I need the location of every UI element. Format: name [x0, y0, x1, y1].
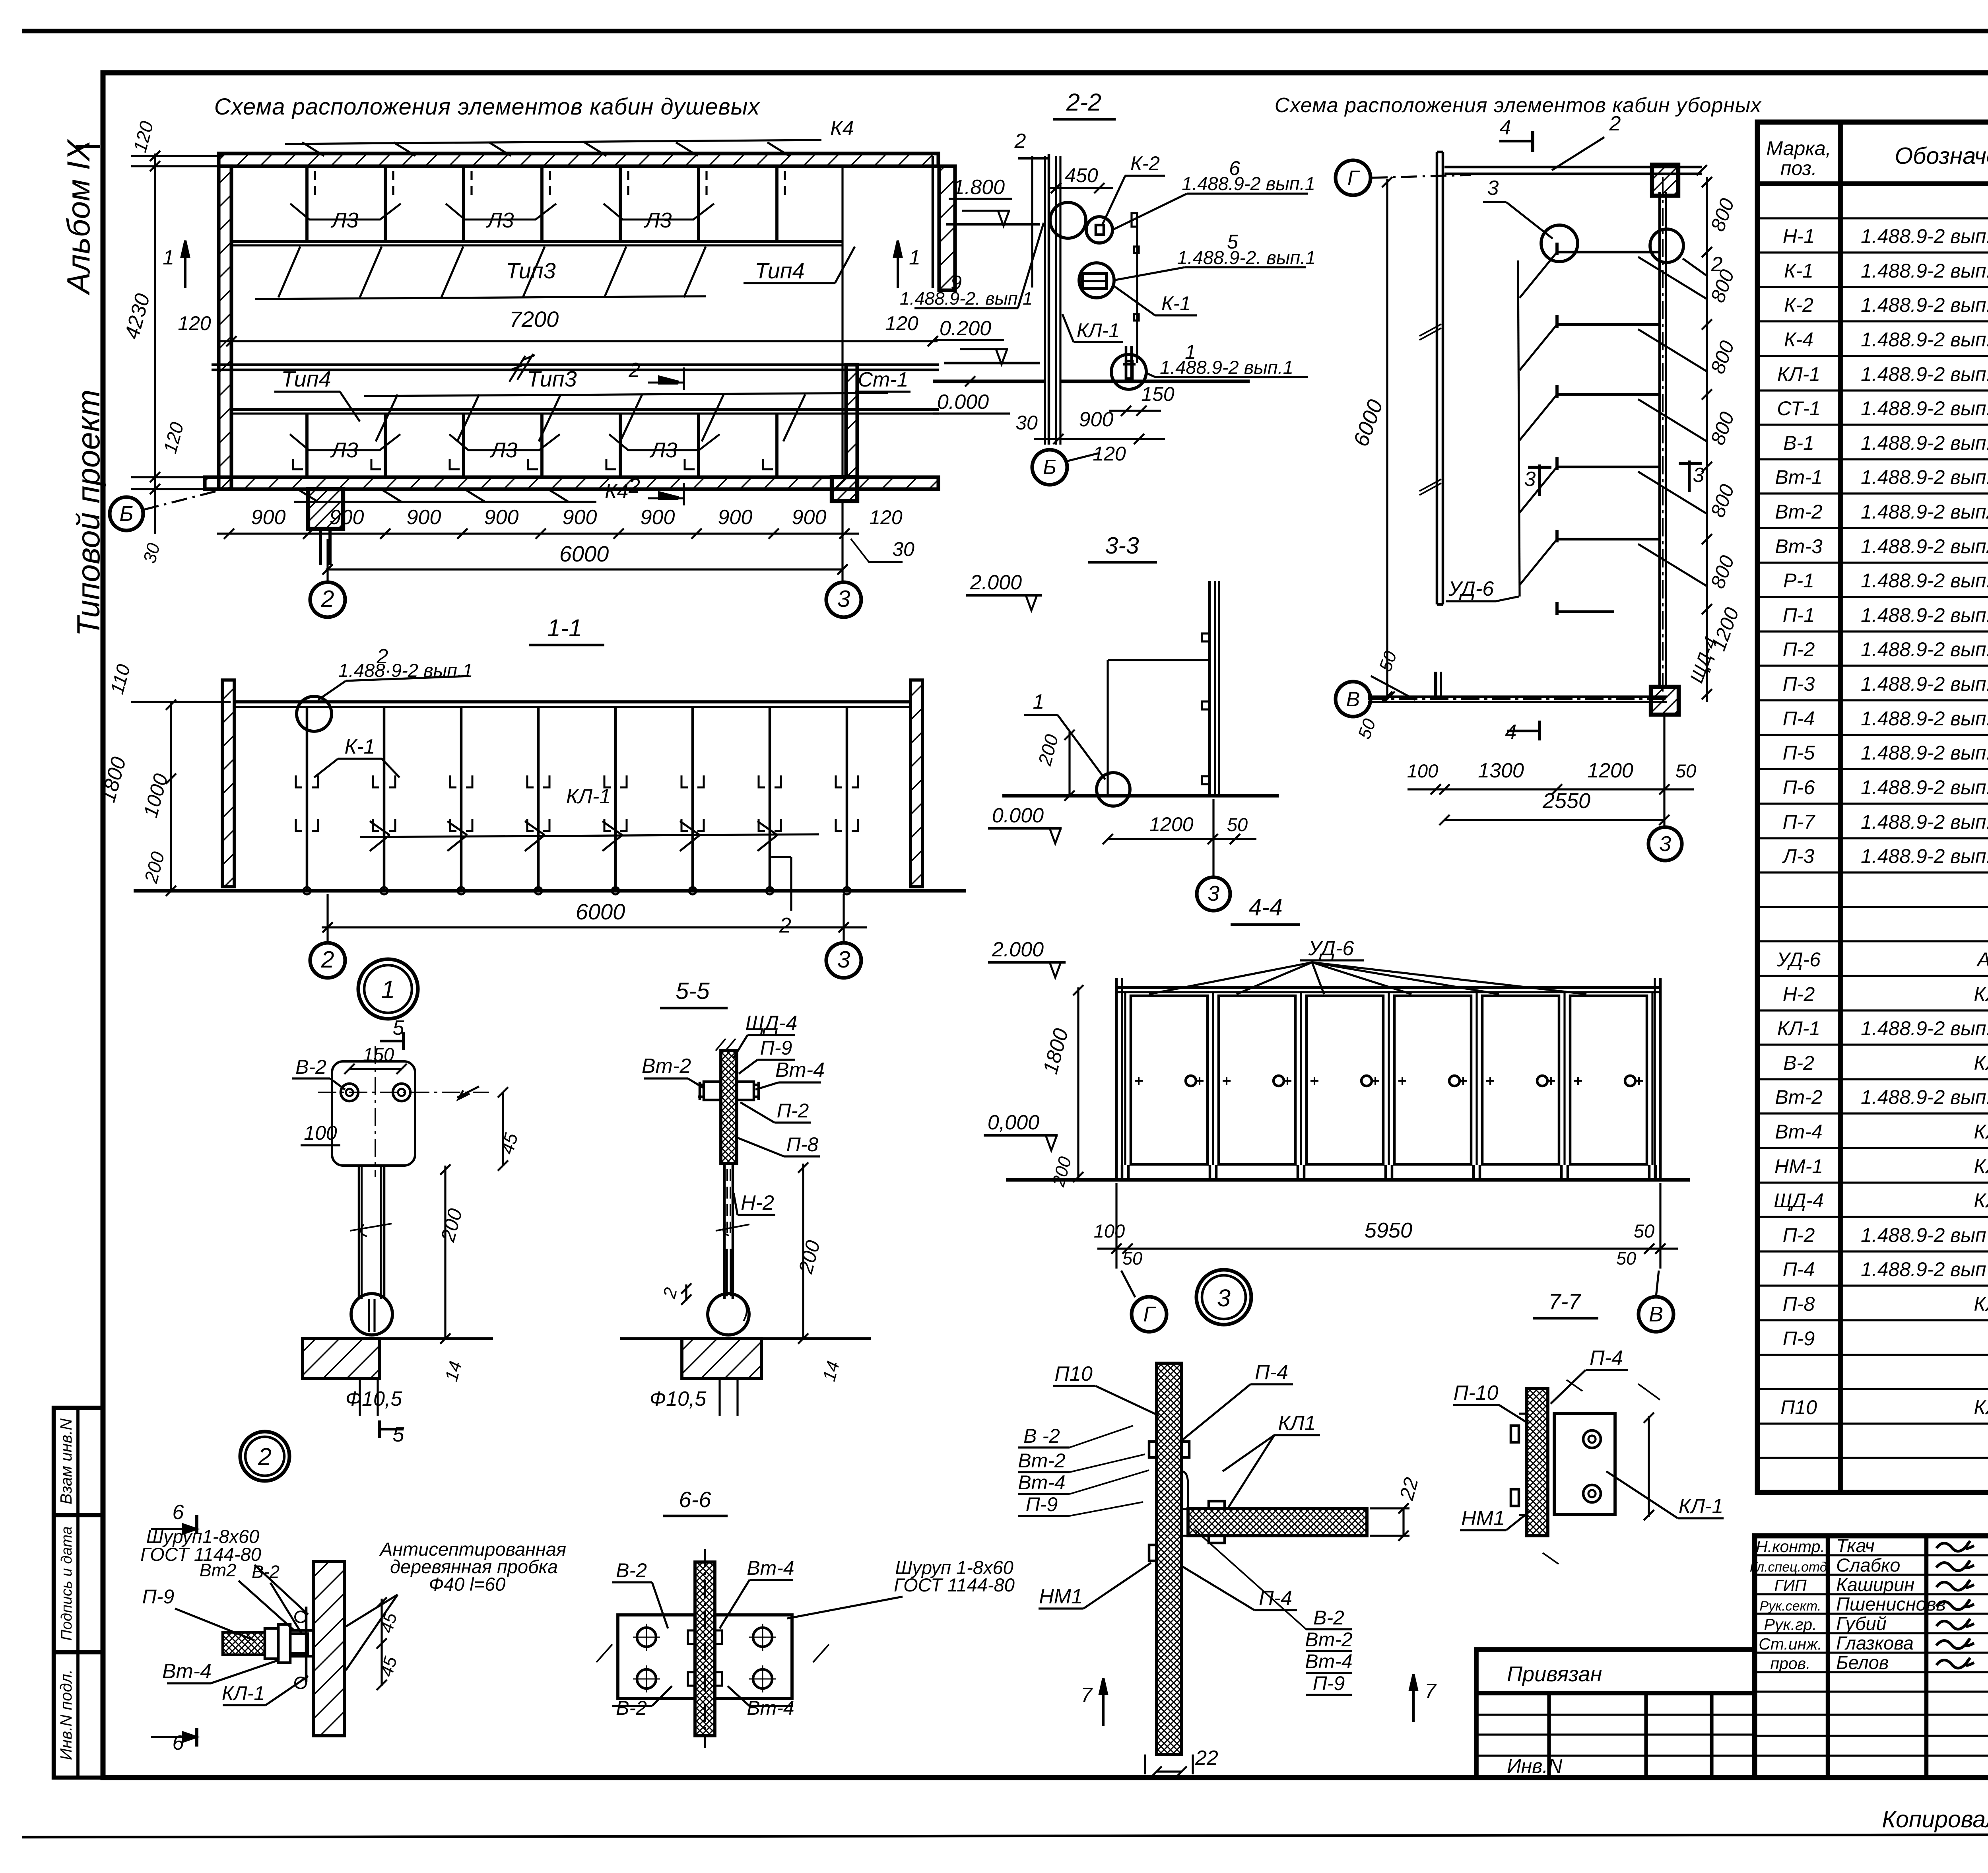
svg-text:2: 2	[321, 946, 334, 973]
svg-text:Тип3: Тип3	[527, 366, 577, 391]
4-4 right wall	[1654, 978, 1656, 1180]
svg-text:7: 7	[1425, 1680, 1437, 1703]
svg-text:ГОСТ 1144-80: ГОСТ 1144-80	[894, 1574, 1015, 1595]
svg-text:2.000: 2.000	[970, 571, 1022, 594]
second row collector and fans	[364, 393, 888, 396]
svg-text:2: 2	[258, 1443, 272, 1470]
privyazan box	[1476, 1650, 1755, 1778]
title block outline	[1755, 1536, 1988, 1778]
svg-text:ЩД-4: ЩД-4	[745, 1012, 798, 1035]
K4 leader bottom	[294, 501, 596, 503]
svg-text:Вт-3: Вт-3	[1775, 535, 1823, 558]
svg-text:1.488.9-2 вып.2: 1.488.9-2 вып.2	[1861, 294, 1988, 316]
svg-text:Г: Г	[1347, 167, 1360, 190]
svg-text:1.488.9-2 вып.2: 1.488.9-2 вып.2	[1861, 776, 1988, 799]
detail circle 3	[1196, 1270, 1251, 1325]
svg-text:П-1: П-1	[1783, 604, 1815, 626]
title block left grid verticals	[1826, 1536, 1830, 1778]
svg-text:4: 4	[1500, 116, 1511, 139]
svg-text:П-9: П-9	[760, 1037, 792, 1059]
6-6 bolts	[637, 1628, 656, 1647]
svg-text:900: 900	[718, 506, 753, 529]
svg-text:КЖИ - 41.00: КЖИ - 41.00	[1974, 1293, 1988, 1315]
svg-text:П-3: П-3	[1783, 673, 1815, 695]
svg-text:1.488.9-2 вып.1: 1.488.9-2 вып.1	[1160, 357, 1293, 378]
svg-text:Л-3: Л-3	[1782, 845, 1815, 867]
svg-text:Вт-4: Вт-4	[775, 1059, 825, 1082]
svg-text:3: 3	[837, 586, 850, 612]
svg-text:2: 2	[1609, 112, 1621, 135]
page bottom rule	[22, 1834, 1988, 1837]
wc short divider	[1557, 610, 1614, 613]
svg-text:К4: К4	[830, 117, 854, 140]
wc cabin dividers	[1557, 251, 1660, 254]
svg-text:Ст-1: Ст-1	[858, 368, 908, 391]
svg-text:АРИ - 06.00: АРИ - 06.00	[1976, 948, 1988, 971]
svg-text:Ткач: Ткач	[1836, 1535, 1875, 1556]
detail 3 bracket	[1182, 1471, 1188, 1509]
svg-text:150: 150	[1141, 383, 1175, 405]
1-1 axis circles	[310, 943, 345, 978]
svg-text:В-2: В-2	[1313, 1607, 1344, 1629]
svg-text:1.488·9-2 вып.1: 1.488·9-2 вып.1	[338, 660, 473, 681]
6-6 break marks	[596, 1644, 829, 1662]
page top rule	[22, 29, 1988, 33]
svg-text:Белов: Белов	[1836, 1652, 1889, 1673]
svg-text:ГИП: ГИП	[1774, 1576, 1807, 1595]
7-7 dim right	[1648, 1416, 1650, 1517]
svg-text:Ф40 l=60: Ф40 l=60	[429, 1574, 506, 1595]
svg-text:Вт-1: Вт-1	[1775, 466, 1822, 488]
svg-text:П-4: П-4	[1259, 1587, 1292, 1610]
4-4 floor	[1006, 1178, 1690, 1181]
svg-text:Ст.инж.: Ст.инж.	[1759, 1635, 1822, 1653]
2-2 wall lines	[1044, 156, 1046, 445]
svg-text:Слабко: Слабко	[1836, 1554, 1900, 1576]
wc top beam	[1444, 166, 1702, 169]
svg-text:1-1: 1-1	[547, 614, 582, 641]
1-1 left wall hatched	[222, 680, 234, 887]
detail 3 bolts	[1149, 1442, 1157, 1457]
svg-text:Вт-2: Вт-2	[1775, 501, 1823, 523]
2-2 floor line	[933, 379, 1045, 383]
spec table row lines	[1757, 217, 1988, 219]
svg-text:3: 3	[837, 946, 850, 973]
svg-text:1.488.9-2 вып.2: 1.488.9-2 вып.2	[1861, 260, 1988, 282]
svg-text:УД-6: УД-6	[1448, 577, 1494, 600]
svg-text:2.000: 2.000	[992, 938, 1044, 961]
svg-text:1.488.9-2 вып.2: 1.488.9-2 вып.2	[1861, 328, 1988, 351]
right return wall top hatched	[939, 166, 955, 290]
corridor double line with break	[212, 363, 939, 366]
svg-text:1: 1	[381, 976, 395, 1004]
svg-text:2: 2	[628, 359, 640, 382]
7 section marks	[1100, 1678, 1107, 1726]
bottom wall hatched	[205, 477, 938, 489]
7-7 panel hatched	[1527, 1389, 1548, 1536]
detail 1 centerlines	[318, 1092, 489, 1093]
svg-text:900: 900	[251, 506, 286, 529]
wc circles	[1541, 225, 1578, 262]
2-2 right panel edge	[1136, 215, 1138, 363]
svg-text:100: 100	[1094, 1220, 1125, 1242]
svg-text:Тип4: Тип4	[755, 258, 804, 283]
svg-text:В-2: В-2	[1783, 1052, 1814, 1074]
dim 200 detail1	[444, 1166, 446, 1339]
dim 45	[502, 1092, 504, 1166]
svg-text:150: 150	[363, 1044, 394, 1065]
svg-text:1.488.9-2. вып.1: 1.488.9-2. вып.1	[1177, 247, 1316, 268]
right wall lower hatched	[846, 365, 857, 477]
svg-text:Глазкова: Глазкова	[1836, 1632, 1914, 1653]
svg-text:КЖИ - 42.00: КЖИ - 42.00	[1974, 1396, 1988, 1418]
svg-text:900: 900	[484, 506, 519, 529]
svg-text:К-2: К-2	[1784, 294, 1813, 316]
cabin bottom row dividers	[305, 414, 309, 477]
svg-text:5-5: 5-5	[676, 978, 709, 1004]
svg-text:6: 6	[173, 1501, 184, 1524]
svg-text:Вт-4: Вт-4	[747, 1697, 794, 1719]
svg-text:Вт-2: Вт-2	[1305, 1628, 1353, 1651]
4-4 axis circles	[1132, 1297, 1167, 1332]
svg-text:КЛ-1: КЛ-1	[566, 785, 611, 808]
svg-text:Копировал: Копировал	[1882, 1806, 1988, 1832]
dim 150	[349, 1068, 402, 1070]
svg-text:Н.контр.: Н.контр.	[1756, 1537, 1825, 1556]
svg-text:КЛ-1: КЛ-1	[1679, 1495, 1724, 1518]
svg-text:П-5: П-5	[1783, 742, 1815, 764]
detail 1 ball	[351, 1294, 392, 1335]
fan leaders to Тип3 top	[255, 296, 706, 299]
wc right wall	[1658, 192, 1661, 687]
detail 2 dims 45 45	[381, 1599, 382, 1686]
svg-text:П-9: П-9	[1313, 1672, 1345, 1694]
left wall hatched	[219, 166, 231, 489]
svg-text:УД-6: УД-6	[1776, 948, 1821, 971]
svg-text:2: 2	[321, 586, 334, 612]
svg-text:УД-6: УД-6	[1308, 937, 1354, 960]
pier right	[832, 477, 857, 501]
svg-text:Инв.N: Инв.N	[1507, 1755, 1563, 1777]
svg-text:1.488.9-2 вып.2: 1.488.9-2 вып.2	[1861, 397, 1988, 420]
detail 1 leg	[358, 1166, 361, 1299]
svg-text:КЖИ - 38.00: КЖИ - 38.00	[1974, 1121, 1988, 1143]
svg-text:НМ1: НМ1	[1039, 1585, 1083, 1608]
svg-text:поз.: поз.	[1780, 157, 1817, 179]
3-3 axis circle 3	[1197, 877, 1230, 911]
svg-text:7: 7	[1081, 1684, 1093, 1707]
corner L marks bottom row	[293, 459, 303, 469]
svg-text:Инв.N подл.: Инв.N подл.	[57, 1669, 75, 1760]
wc wall break marks	[1419, 324, 1441, 340]
svg-text:1200: 1200	[1149, 813, 1193, 835]
cabin top row dividers	[305, 166, 309, 241]
svg-text:П-8: П-8	[786, 1133, 819, 1156]
spec table column lines	[1838, 122, 1843, 1492]
svg-text:1.488.9-2 вып.2: 1.488.9-2 вып.2	[1861, 811, 1988, 833]
svg-text:КЖИ - 37.00: КЖИ - 37.00	[1974, 1052, 1988, 1074]
svg-text:Обозначение: Обозначение	[1895, 143, 1988, 169]
left margin stamp boxes	[54, 1408, 103, 1778]
svg-text:Ф10,5: Ф10,5	[650, 1387, 707, 1411]
detail circle 1 big	[358, 959, 418, 1019]
svg-text:900: 900	[330, 506, 364, 529]
detail 2 leaders	[254, 1565, 308, 1615]
title block left grid rows	[1755, 1554, 1988, 1556]
svg-text:1: 1	[909, 246, 920, 269]
svg-text:В: В	[1649, 1302, 1663, 1326]
svg-text:П-9: П-9	[1026, 1493, 1058, 1515]
dim row 900s	[217, 532, 859, 534]
axis circle Б	[110, 497, 143, 530]
svg-text:0.000: 0.000	[992, 804, 1044, 827]
svg-text:пров.: пров.	[1771, 1654, 1811, 1673]
svg-text:П-2: П-2	[1783, 1224, 1815, 1246]
svg-text:В-2: В-2	[616, 1559, 647, 1582]
1-1 dim 6000	[322, 926, 867, 928]
2-2 leg	[1125, 346, 1128, 381]
svg-text:6000: 6000	[559, 541, 609, 566]
svg-text:100: 100	[304, 1122, 337, 1144]
svg-text:КЖИ - 36.00: КЖИ - 36.00	[1974, 983, 1988, 1005]
svg-text:КЛ1: КЛ1	[1278, 1412, 1316, 1435]
svg-text:Схема расположения элементов к: Схема расположения элементов кабин уборн…	[1275, 94, 1762, 117]
svg-text:Вт2: Вт2	[200, 1560, 237, 1580]
svg-text:П-4: П-4	[1590, 1346, 1623, 1370]
svg-text:5: 5	[393, 1423, 405, 1446]
svg-text:900: 900	[407, 506, 441, 529]
second cabin row top line	[231, 408, 939, 411]
detail 2 panel hatched	[223, 1632, 265, 1655]
svg-text:Тип4: Тип4	[281, 366, 331, 391]
axis circle Г	[1336, 160, 1371, 195]
svg-text:СТ-1: СТ-1	[1777, 397, 1820, 420]
6-6 nut marks	[688, 1630, 695, 1644]
svg-text:1.488.9-2 вып2: 1.488.9-2 вып2	[1861, 535, 1988, 558]
1-1 2 mark bottom	[771, 856, 791, 858]
svg-text:КЛ-1: КЛ-1	[1777, 1017, 1820, 1039]
svg-text:Взам инв.N: Взам инв.N	[57, 1418, 75, 1504]
4-4 left wall	[1115, 978, 1118, 1180]
svg-text:Б: Б	[119, 502, 133, 526]
plan left dims	[154, 153, 156, 534]
wc bottom dims	[1408, 788, 1694, 790]
svg-text:1: 1	[163, 246, 174, 269]
svg-text:Альбом IX: Альбом IX	[61, 138, 97, 295]
svg-text:К-2: К-2	[1130, 152, 1160, 175]
svg-text:Губий: Губий	[1836, 1613, 1887, 1634]
svg-text:Вт-4: Вт-4	[1018, 1471, 1065, 1494]
svg-text:П-2: П-2	[777, 1100, 809, 1122]
svg-text:В-2: В-2	[616, 1697, 647, 1719]
wc bottom stub wall	[1434, 672, 1437, 699]
axis circle Б 2-2	[1032, 450, 1067, 485]
svg-text:1: 1	[1033, 690, 1044, 713]
4-4 doors	[1131, 996, 1208, 1164]
detail 3 horizontal panel hatched	[1188, 1508, 1367, 1536]
svg-text:П-9: П-9	[142, 1585, 175, 1608]
detail 1 break mark	[457, 1086, 479, 1099]
1-1 right wall hatched	[911, 680, 922, 887]
svg-text:ЩД-4: ЩД-4	[1774, 1189, 1824, 1212]
svg-text:30: 30	[1015, 412, 1038, 434]
svg-text:Рук.сект.: Рук.сект.	[1760, 1599, 1821, 1614]
wc bottom beam	[1368, 696, 1667, 698]
K4 leader top	[285, 140, 821, 144]
svg-text:Н-2: Н-2	[1783, 983, 1815, 1005]
svg-text:В-2: В-2	[295, 1056, 326, 1078]
svg-text:Ф10,5: Ф10,5	[346, 1387, 403, 1411]
svg-text:Каширин: Каширин	[1836, 1574, 1914, 1595]
svg-text:30: 30	[892, 538, 914, 560]
svg-text:Привязан: Привязан	[1507, 1662, 1602, 1686]
5-5 bolt assembly	[704, 1082, 721, 1100]
3-3 panel	[1208, 581, 1211, 796]
spec table header line	[1757, 181, 1988, 186]
svg-text:4-4: 4-4	[1248, 894, 1282, 921]
svg-text:Подпись и дата: Подпись и дата	[58, 1526, 75, 1640]
svg-text:Схема расположения элементов: Схема расположения элементов кабин душев…	[214, 94, 761, 120]
svg-text:П10: П10	[1780, 1396, 1817, 1418]
svg-text:1.488.9-2 вып.2: 1.488.9-2 вып.2	[1861, 1017, 1988, 1039]
wc left wall	[1436, 152, 1439, 604]
svg-text:1.488.9-2 вып.2: 1.488.9-2 вып.2	[1861, 604, 1988, 626]
svg-text:Пшенисновв: Пшенисновв	[1836, 1593, 1946, 1615]
svg-text:1.488.9-2 вып.2: 1.488.9-2 вып.2	[1861, 638, 1988, 661]
4-4 bottom dims	[1097, 1247, 1678, 1249]
svg-text:К-1: К-1	[1784, 260, 1813, 282]
wc top pier hatched	[1652, 165, 1678, 196]
svg-text:Рук.гр.: Рук.гр.	[1764, 1615, 1817, 1634]
svg-text:Вт-2: Вт-2	[1018, 1449, 1066, 1472]
4-4 top beam	[1116, 986, 1660, 989]
svg-text:Вт-4: Вт-4	[1305, 1650, 1352, 1673]
spec table outline	[1757, 122, 1988, 1492]
svg-text:Н-2: Н-2	[741, 1191, 774, 1214]
svg-text:П-4: П-4	[1783, 1258, 1815, 1280]
7-7 plate	[1554, 1414, 1615, 1515]
svg-text:50: 50	[1227, 814, 1248, 835]
svg-text:900: 900	[1079, 408, 1114, 431]
svg-text:Р-1: Р-1	[1783, 569, 1814, 592]
1-1 floor	[134, 889, 966, 892]
svg-text:1300: 1300	[1478, 759, 1524, 782]
svg-text:1.488.9-2 вып.2: 1.488.9-2 вып.2	[1861, 1086, 1988, 1108]
5-5 panel hatched	[721, 1051, 737, 1164]
svg-text:120: 120	[178, 312, 211, 334]
svg-text:П-6: П-6	[1783, 776, 1815, 799]
axis circle 3 wc	[1648, 827, 1682, 861]
svg-text:Вт-4: Вт-4	[1775, 1121, 1822, 1143]
svg-text:2550: 2550	[1542, 789, 1590, 813]
detail 1 bolts	[341, 1084, 358, 1101]
detail 3 vertical panel hatched	[1157, 1363, 1182, 1754]
svg-text:3: 3	[1487, 177, 1499, 200]
svg-text:900: 900	[792, 506, 827, 529]
svg-text:1.488.9-2 вып.2: 1.488.9-2 вып.2	[1861, 225, 1988, 247]
dashed corner marks top row	[314, 171, 316, 199]
svg-text:120: 120	[869, 506, 903, 528]
svg-text:П-2: П-2	[1783, 638, 1815, 661]
svg-text:Вт-4: Вт-4	[747, 1557, 794, 1579]
detail 2 wall hatched	[313, 1562, 344, 1736]
svg-text:1.488.9-2. вып.1: 1.488.9-2. вып.1	[900, 288, 1033, 309]
top wall hatched	[219, 153, 938, 166]
svg-text:П-9: П-9	[1783, 1327, 1815, 1350]
wc right dim 800s	[1706, 177, 1708, 702]
svg-text:1.488.9-2 вып.2: 1.488.9-2 вып.2	[1861, 363, 1988, 385]
svg-text:0.200: 0.200	[940, 317, 991, 340]
svg-text:7-7: 7-7	[1549, 1289, 1582, 1314]
svg-text:1.488.9-2 вып2.: 1.488.9-2 вып2.	[1861, 501, 1988, 523]
wc collector line	[1518, 260, 1520, 596]
svg-text:К-1: К-1	[1161, 292, 1191, 315]
svg-text:П-4: П-4	[1783, 707, 1815, 730]
wc bottom pier hatched	[1651, 687, 1679, 715]
svg-text:900: 900	[641, 506, 675, 529]
svg-text:П-10: П-10	[1454, 1381, 1499, 1405]
svg-text:1.488.9-2 вып.2: 1.488.9-2 вып.2	[1861, 432, 1988, 454]
svg-text:1.488.9-2 вып.2: 1.488.9-2 вып.2	[1861, 673, 1988, 695]
svg-text:НМ1: НМ1	[1461, 1507, 1505, 1530]
1-1 top rail	[234, 700, 911, 703]
svg-text:120: 120	[885, 312, 918, 334]
svg-text:1200: 1200	[1587, 759, 1633, 782]
3-3 floor	[1002, 794, 1279, 797]
svg-text:Гл.спец.отд.: Гл.спец.отд.	[1750, 1560, 1831, 1575]
small fittings in circles	[1096, 225, 1104, 235]
svg-text:КЛ-1: КЛ-1	[222, 1682, 265, 1704]
dim 6000	[326, 568, 843, 570]
svg-text:3: 3	[1659, 832, 1671, 856]
svg-text:1.488.9-2 вып.2: 1.488.9-2 вып.2	[1861, 569, 1988, 592]
svg-text:0,000: 0,000	[988, 1111, 1039, 1134]
6-6 panel hatched	[695, 1562, 715, 1736]
svg-text:7200: 7200	[509, 307, 559, 332]
svg-text:3: 3	[1208, 882, 1219, 905]
svg-text:К4: К4	[605, 480, 629, 503]
svg-text:5950: 5950	[1365, 1218, 1412, 1242]
svg-text:П-8: П-8	[1783, 1293, 1815, 1315]
dim 450	[1050, 187, 1113, 189]
svg-text:К-1: К-1	[345, 735, 375, 758]
svg-text:3: 3	[1524, 468, 1536, 491]
svg-text:Вт-4: Вт-4	[162, 1660, 212, 1683]
6-6 plates	[618, 1615, 695, 1698]
svg-text:22: 22	[1195, 1747, 1218, 1770]
svg-text:450: 450	[1065, 164, 1098, 187]
svg-text:П-7: П-7	[1783, 811, 1816, 833]
svg-text:3-3: 3-3	[1105, 532, 1139, 559]
svg-text:2: 2	[1014, 130, 1026, 153]
7-7 left bolts	[1511, 1426, 1519, 1442]
detail 2 bracket on wall	[305, 1607, 308, 1682]
svg-text:Тип3: Тип3	[506, 258, 555, 283]
svg-text:В -2: В -2	[1023, 1425, 1060, 1447]
svg-text:2: 2	[628, 474, 640, 497]
axis circle 3	[826, 582, 861, 617]
detail circle 2	[240, 1432, 289, 1481]
svg-text:1.488.9-2 вып 2: 1.488.9-2 вып 2	[1861, 1224, 1988, 1246]
svg-text:В-2: В-2	[252, 1562, 280, 1582]
detail 1 plate	[332, 1061, 415, 1166]
svg-text:100: 100	[1407, 760, 1438, 781]
svg-text:50: 50	[1634, 1220, 1654, 1242]
svg-text:Марка,: Марка,	[1766, 137, 1831, 159]
axis circle В	[1336, 682, 1371, 717]
svg-text:КЛ-1: КЛ-1	[1777, 363, 1820, 385]
pier left	[308, 489, 343, 529]
